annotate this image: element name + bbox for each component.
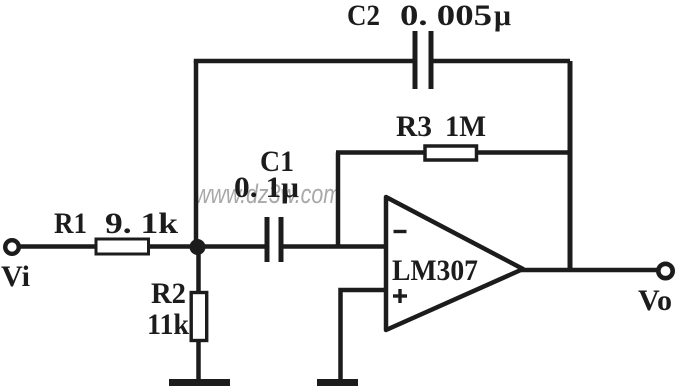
op-amp plus pin mark bbox=[393, 289, 407, 303]
ground (op-amp +) bbox=[317, 379, 358, 386]
svg-text:11k: 11k bbox=[147, 308, 189, 341]
wire: node to C1 bbox=[198, 244, 267, 249]
capacitor C2 bbox=[415, 31, 431, 89]
label R3 1M bbox=[396, 110, 486, 143]
ground (R2) bbox=[169, 379, 230, 386]
op-amp U1 LM307 bbox=[386, 197, 523, 330]
label C2 0.005u bbox=[347, 0, 511, 32]
wire: R1 to node bbox=[148, 244, 198, 249]
wire: R3 right segment bbox=[476, 150, 570, 155]
wire: right vertical from top to output bbox=[568, 61, 573, 270]
wire: R3 left segment bbox=[336, 150, 425, 155]
resistor R2 bbox=[191, 293, 207, 341]
wire: top feedback left segment bbox=[196, 61, 415, 63]
wire: node down to R2 bbox=[196, 247, 201, 292]
wire: R3 down to inverting input bbox=[336, 153, 341, 247]
resistor R3 bbox=[425, 146, 477, 160]
terminal Vi bbox=[5, 240, 19, 254]
wire: Vi to R1 bbox=[20, 244, 96, 249]
wire: op-amp output to Vo bbox=[521, 268, 657, 273]
svg-text:9. 1k: 9. 1k bbox=[105, 207, 178, 240]
op-amp minus pin mark bbox=[394, 230, 407, 233]
svg-text:R2: R2 bbox=[151, 277, 186, 310]
wire: C1 to inverting input bbox=[281, 244, 386, 249]
wire: top feedback right segment bbox=[431, 59, 570, 64]
svg-text:0. 005: 0. 005 bbox=[400, 0, 492, 32]
svg-text:LM307: LM307 bbox=[392, 254, 478, 287]
svg-text:R1: R1 bbox=[54, 207, 87, 240]
svg-text:μ: μ bbox=[494, 0, 511, 32]
svg-text:R3: R3 bbox=[396, 110, 432, 143]
svg-text:C2: C2 bbox=[347, 0, 380, 32]
svg-text:Vi: Vi bbox=[1, 260, 30, 293]
svg-text:0. 1μ: 0. 1μ bbox=[234, 171, 299, 204]
node junction dot bbox=[190, 239, 206, 255]
wire: R2 to ground bbox=[196, 342, 201, 382]
terminal Vo bbox=[658, 264, 672, 278]
wire: non-inverting input bbox=[341, 290, 387, 382]
wire: left vertical from top to node bbox=[194, 61, 199, 247]
label R1 9.1k bbox=[54, 207, 178, 240]
resistor R1 bbox=[96, 239, 149, 254]
svg-text:Vo: Vo bbox=[638, 284, 672, 317]
capacitor C1 bbox=[267, 217, 281, 262]
svg-text:1M: 1M bbox=[445, 110, 486, 143]
